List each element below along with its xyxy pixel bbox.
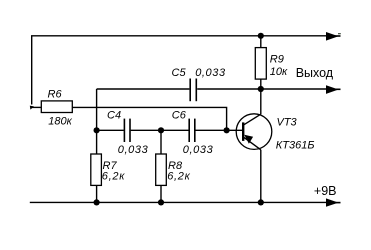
svg-text:6,2к: 6,2к [167, 170, 190, 182]
svg-text:R6: R6 [48, 88, 63, 100]
svg-text:6,2к: 6,2к [102, 170, 125, 182]
svg-text:C6: C6 [172, 110, 187, 122]
svg-text:R9: R9 [270, 54, 284, 66]
svg-text:Выход: Выход [296, 66, 334, 80]
svg-text:10к: 10к [270, 66, 288, 78]
svg-text:0,033: 0,033 [118, 144, 149, 156]
svg-text:180к: 180к [48, 116, 72, 128]
svg-text:VT3: VT3 [277, 117, 298, 129]
svg-text:C4: C4 [107, 110, 121, 122]
svg-text:0,033: 0,033 [195, 67, 226, 79]
svg-text:+9В: +9В [314, 184, 337, 198]
svg-text:КТ361Б: КТ361Б [276, 139, 315, 151]
svg-text:C5: C5 [172, 67, 187, 79]
svg-text:0,033: 0,033 [183, 144, 214, 156]
